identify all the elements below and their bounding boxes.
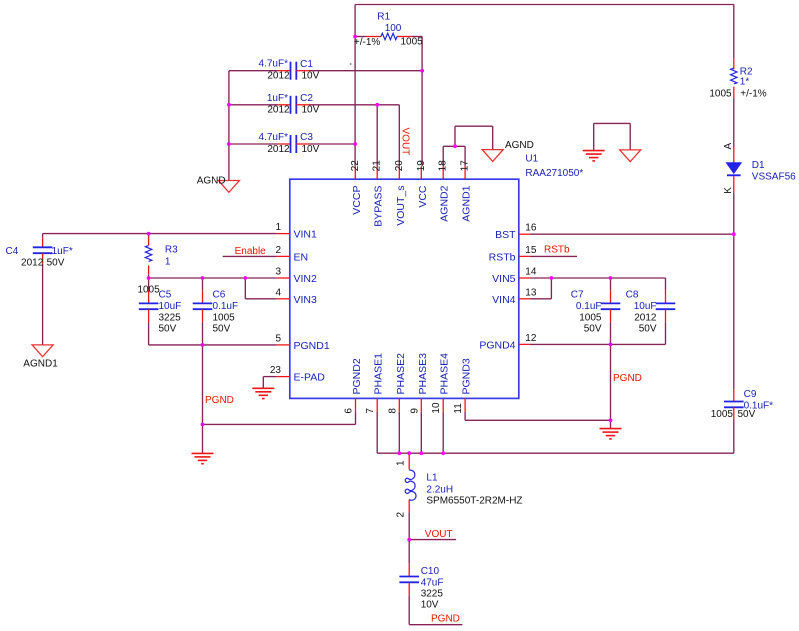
svg-text:VSSAF56: VSSAF56	[752, 172, 796, 183]
svg-text:PHASE3: PHASE3	[417, 353, 429, 395]
svg-text:D1: D1	[752, 160, 765, 171]
svg-text:SPM6550T-2R2M-HZ: SPM6550T-2R2M-HZ	[426, 496, 522, 507]
svg-text:C7: C7	[571, 290, 584, 301]
svg-text:15: 15	[525, 245, 537, 256]
svg-text:3225: 3225	[159, 312, 182, 323]
svg-text:2.2uH: 2.2uH	[426, 485, 453, 496]
svg-text:+/-1%: +/-1%	[354, 37, 381, 48]
svg-text:VIN3: VIN3	[294, 294, 318, 306]
svg-text:C6: C6	[213, 290, 226, 301]
svg-text:13: 13	[525, 287, 537, 298]
svg-text:22: 22	[350, 160, 361, 172]
svg-text:1uF*: 1uF*	[52, 246, 73, 257]
svg-text:8: 8	[387, 408, 398, 414]
svg-text:VIN5: VIN5	[492, 273, 516, 285]
svg-text:K: K	[723, 187, 734, 194]
svg-text:23: 23	[270, 365, 282, 376]
svg-text:12: 12	[525, 333, 537, 344]
svg-text:PHASE4: PHASE4	[439, 353, 451, 395]
svg-text:AGND: AGND	[505, 140, 534, 151]
svg-text:AGND2: AGND2	[439, 185, 451, 221]
svg-text:3: 3	[275, 267, 281, 278]
svg-text:2012: 2012	[634, 312, 657, 323]
svg-text:R1: R1	[377, 12, 390, 23]
svg-text:10V: 10V	[302, 71, 320, 82]
svg-text:VIN1: VIN1	[294, 229, 318, 241]
svg-text:PGND2: PGND2	[351, 358, 363, 394]
svg-text:1*: 1*	[740, 77, 750, 88]
svg-text:10V: 10V	[302, 144, 320, 155]
svg-text:9: 9	[409, 408, 420, 414]
svg-text:C9: C9	[744, 389, 757, 400]
svg-text:PGND: PGND	[613, 373, 642, 384]
svg-text:R3: R3	[165, 245, 178, 256]
svg-text:10: 10	[431, 402, 442, 414]
svg-text:PGND: PGND	[205, 395, 234, 406]
svg-text:50V: 50V	[213, 324, 231, 335]
svg-text:1uF*: 1uF*	[267, 93, 288, 104]
svg-text:2012: 2012	[267, 105, 290, 116]
svg-text:C8: C8	[626, 290, 639, 301]
svg-text:0.1uF: 0.1uF	[213, 301, 239, 312]
svg-text:C5: C5	[159, 290, 172, 301]
svg-text:10V: 10V	[421, 600, 439, 611]
svg-text:2012: 2012	[267, 71, 290, 82]
svg-text:5: 5	[275, 333, 281, 344]
svg-text:21: 21	[372, 160, 383, 172]
svg-text:14: 14	[525, 267, 537, 278]
svg-text:2012: 2012	[267, 144, 290, 155]
svg-text:RAA271050*: RAA271050*	[525, 168, 583, 179]
svg-text:1005: 1005	[711, 409, 734, 420]
svg-text:VOUT: VOUT	[400, 128, 411, 156]
svg-text:EN: EN	[294, 251, 309, 263]
svg-text:0.1uF: 0.1uF	[576, 301, 602, 312]
svg-text:AGND1: AGND1	[23, 358, 58, 369]
svg-text:PGND4: PGND4	[479, 339, 515, 351]
svg-text:PHASE2: PHASE2	[395, 353, 407, 395]
svg-text:PGND3: PGND3	[461, 358, 473, 394]
svg-text:1005: 1005	[137, 284, 160, 295]
svg-text:VIN2: VIN2	[294, 273, 318, 285]
svg-text:50V: 50V	[639, 324, 657, 335]
svg-text:1005: 1005	[213, 312, 236, 323]
svg-text:U1: U1	[525, 154, 538, 165]
svg-text:PHASE1: PHASE1	[373, 353, 385, 395]
svg-text:L1: L1	[426, 473, 438, 484]
svg-text:VCC: VCC	[417, 185, 429, 208]
svg-text:RSTb: RSTb	[544, 245, 570, 256]
svg-text:PGND: PGND	[431, 614, 460, 625]
svg-text:50V: 50V	[47, 258, 65, 269]
svg-text:3225: 3225	[421, 589, 444, 600]
svg-text:47uF: 47uF	[421, 577, 444, 588]
svg-text:RSTb: RSTb	[489, 251, 516, 263]
svg-text:+/-1%: +/-1%	[740, 89, 767, 100]
svg-text:C3: C3	[300, 132, 313, 143]
svg-text:A: A	[723, 143, 734, 150]
svg-text:100: 100	[385, 23, 402, 34]
svg-text:C2: C2	[300, 93, 313, 104]
svg-text:C4: C4	[6, 246, 19, 257]
svg-text:18: 18	[438, 160, 449, 172]
svg-text:C10: C10	[421, 566, 440, 577]
svg-text:50V: 50V	[738, 409, 756, 420]
svg-text:Enable: Enable	[235, 246, 267, 257]
svg-text:7: 7	[365, 408, 376, 414]
svg-text:BYPASS: BYPASS	[373, 186, 385, 227]
svg-text:50V: 50V	[584, 324, 602, 335]
svg-text:C1: C1	[300, 59, 313, 70]
svg-text:2: 2	[396, 512, 407, 518]
svg-text:VIN4: VIN4	[492, 294, 516, 306]
svg-text:E-PAD: E-PAD	[294, 372, 326, 384]
svg-text:20: 20	[394, 160, 405, 172]
svg-text:VCCP: VCCP	[351, 186, 363, 215]
svg-text:BST: BST	[495, 229, 516, 241]
svg-text:11: 11	[453, 403, 464, 414]
svg-text:4.7uF*: 4.7uF*	[259, 132, 289, 143]
svg-text:1: 1	[275, 222, 281, 233]
svg-text:19: 19	[416, 160, 427, 172]
svg-text:10uF: 10uF	[634, 301, 657, 312]
svg-text:2012: 2012	[21, 258, 44, 269]
svg-text:PGND1: PGND1	[294, 340, 330, 352]
svg-text:VOUT_s: VOUT_s	[395, 186, 407, 226]
svg-text:1005: 1005	[579, 312, 602, 323]
svg-text:17: 17	[460, 160, 471, 172]
svg-text:10uF: 10uF	[159, 301, 182, 312]
svg-text:AGND1: AGND1	[461, 185, 473, 221]
svg-text:50V: 50V	[159, 324, 177, 335]
svg-text:1005: 1005	[709, 89, 732, 100]
svg-text:16: 16	[525, 223, 537, 234]
svg-text:4.7uF*: 4.7uF*	[259, 59, 289, 70]
svg-text:AGND: AGND	[197, 175, 226, 186]
svg-text:2: 2	[275, 245, 281, 256]
svg-text:VOUT: VOUT	[425, 529, 453, 540]
svg-text:6: 6	[344, 408, 355, 414]
svg-text:10V: 10V	[302, 105, 320, 116]
svg-text:4: 4	[275, 287, 281, 298]
svg-text:1: 1	[165, 257, 171, 268]
svg-text:1005: 1005	[401, 37, 424, 48]
svg-text:1: 1	[396, 460, 407, 466]
